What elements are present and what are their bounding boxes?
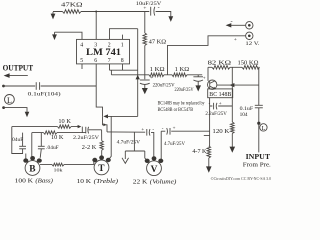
wire (top rail to capacitor)	[81, 11, 149, 13]
battery terminal + 12V (circle)	[246, 32, 253, 39]
svg-text:+: +	[203, 77, 206, 82]
svg-text:0.1uF: 0.1uF	[240, 107, 254, 112]
svg-text:1 KΩ: 1 KΩ	[150, 66, 165, 73]
wire bass left terminal	[25, 154, 27, 159]
wire to volume left terminal	[145, 151, 147, 160]
note text: BC148B may be replaced by BC548B or BC547B	[158, 101, 205, 114]
wire pin 3 to top rail	[95, 12, 97, 40]
svg-text:INPUT: INPUT	[246, 152, 271, 161]
ground arrow (below 120K)	[230, 134, 236, 153]
capacitor 0.1uF(104) output	[36, 82, 39, 90]
vertical from pin2 loop down through bus	[137, 29, 139, 117]
wire row2 left corner down to bass wiper	[31, 133, 33, 159]
svg-text:+: +	[173, 126, 176, 131]
wire feedback row	[107, 115, 138, 117]
svg-text:©CircuitsDIY.com CC BY-NC-SA 3: ©CircuitsDIY.com CC BY-NC-SA 3.0	[211, 176, 272, 181]
wire input column	[258, 67, 261, 152]
wire output row	[4, 85, 97, 87]
capacitor .04uF (bass left)	[19, 133, 26, 154]
node arrow (up arrow at bus junction)	[136, 75, 140, 80]
svg-text:2: 2	[108, 43, 111, 49]
svg-text:2.2uF/25V: 2.2uF/25V	[205, 112, 227, 117]
svg-text:3: 3	[94, 43, 97, 49]
svg-text:22 K: 22 K	[133, 178, 148, 185]
node (second output terminal)	[2, 106, 5, 109]
svg-text:10 K: 10 K	[77, 178, 92, 185]
node (pin3 tap on top rail)	[95, 11, 97, 13]
svg-text:8: 8	[121, 58, 124, 64]
node + drop to ground row	[133, 132, 135, 151]
battery terminal - (circle)	[246, 22, 253, 29]
resistor 82 KΩ	[208, 66, 242, 70]
svg-text:+: +	[234, 37, 237, 43]
resistor 10 K (row 2)	[32, 131, 86, 134]
svg-text:150 KΩ: 150 KΩ	[238, 59, 259, 66]
wire outer loop (row1 left down to bass)	[12, 127, 23, 154]
pin 1 stub	[122, 35, 124, 40]
svg-text:10k: 10k	[54, 167, 63, 172]
svg-text:+: +	[150, 76, 153, 81]
svg-text:10uF/25V: 10uF/25V	[136, 1, 162, 7]
svg-text:L: L	[7, 96, 12, 105]
svg-text:104: 104	[240, 113, 249, 118]
output arrow (left)	[4, 73, 28, 78]
svg-text:04uF: 04uF	[12, 138, 23, 143]
capacitor 10uF/25V (top)	[143, 5, 159, 15]
capacitor 2.2uF/25V (emitter branch)	[209, 102, 233, 109]
pin numbers top 4 3 2 1	[80, 43, 124, 49]
svg-text:2-2 K: 2-2 K	[82, 144, 97, 151]
wire bias bus	[111, 74, 202, 76]
resistor 4.7 K (vertical)	[207, 146, 211, 158]
svg-text:82 KΩ: 82 KΩ	[208, 59, 232, 66]
svg-text:220uF/25V: 220uF/25V	[175, 88, 194, 93]
svg-text:V: V	[151, 165, 158, 175]
resistor 120 K (vertical)	[231, 122, 235, 134]
svg-text:BC148B may be replaced by: BC148B may be replaced by	[158, 101, 205, 107]
pin 5 stub	[81, 64, 83, 69]
svg-text:.04uF: .04uF	[46, 146, 59, 151]
wire pin 2 loop	[110, 29, 138, 40]
svg-text:L: L	[262, 125, 266, 132]
svg-text:(Bass): (Bass)	[35, 178, 53, 185]
svg-text:B: B	[29, 165, 35, 175]
svg-text:4-7 K: 4-7 K	[192, 148, 207, 155]
capacitor 220uF/25V (second, below bus)	[193, 75, 205, 92]
capacitor 2.2uF/25V (row 2)	[86, 127, 102, 134]
svg-text:4: 4	[80, 43, 83, 49]
svg-text:4.7uF/25V: 4.7uF/25V	[117, 140, 141, 145]
wire ground row (between T and V)	[125, 150, 145, 152]
svg-text:47KΩ: 47KΩ	[61, 2, 83, 9]
potentiometer B (bass)	[23, 156, 42, 175]
resistor 47K (top, horizontal)	[53, 10, 81, 14]
op-amp U1 LM741 (body)	[77, 39, 130, 64]
svg-text:BC 148B: BC 148B	[209, 92, 231, 98]
resistor 1 KΩ (first)	[149, 73, 164, 77]
svg-text:+: +	[219, 102, 222, 107]
wire pin 6 down	[96, 64, 102, 116]
resistor 10 K (row 1)	[12, 125, 82, 128]
svg-text:(Volume): (Volume)	[150, 178, 177, 185]
capacitor 220uF/25V (first, below bus)	[140, 76, 153, 94]
svg-text:47 KΩ: 47 KΩ	[149, 38, 167, 45]
wire emitter/output row	[217, 84, 259, 86]
node (output terminal)	[2, 85, 5, 88]
arrow to - terminal	[226, 18, 246, 27]
wire row1 end to cap	[81, 127, 83, 133]
svg-text:12 V.: 12 V.	[245, 41, 260, 47]
wire + ground arrow (right of 10uF cap)	[156, 12, 174, 22]
capacitor .04uF (bass right)	[38, 133, 45, 158]
resistor 10k (bass-treble link)	[40, 161, 94, 166]
wire bus left end (from pin7 rail down)	[110, 70, 112, 75]
svg-text:4.7uF/25V: 4.7uF/25V	[164, 142, 186, 147]
wire pin6 descent to 4.7uF row	[103, 116, 108, 132]
svg-text:(Treble): (Treble)	[94, 178, 119, 185]
svg-text:120 K: 120 K	[212, 128, 229, 135]
wire + down arrow (second terminal)	[4, 108, 30, 118]
potentiometer T (treble)	[92, 155, 111, 174]
terminal L (input)	[260, 124, 267, 132]
wire emitter branch down	[204, 98, 210, 146]
svg-text:From Pre.: From Pre.	[243, 161, 271, 168]
capacitor 4.7uF/25V (B)	[161, 126, 209, 134]
svg-text:6: 6	[94, 58, 97, 64]
capacitor 4.7uF/25V (A)	[141, 128, 154, 136]
svg-text:5: 5	[80, 58, 83, 64]
svg-text:100 K: 100 K	[15, 178, 34, 185]
node (input junction)	[257, 122, 260, 125]
svg-text:1: 1	[121, 43, 124, 49]
svg-text:220uF/25V: 220uF/25V	[153, 83, 175, 88]
wire pin 7 / pin 8 join	[110, 64, 138, 70]
capacitor 0.1uF/104 (input)	[255, 105, 263, 108]
svg-text:10 K: 10 K	[51, 134, 64, 141]
svg-text:10 K: 10 K	[58, 118, 71, 125]
terminal L (output)	[4, 95, 14, 105]
wire 4.7uF feed row	[107, 131, 145, 133]
svg-text:T: T	[98, 164, 105, 174]
wire 12V supply to 1K junction	[168, 36, 246, 75]
svg-text:1 KΩ: 1 KΩ	[175, 66, 190, 73]
potentiometer V (volume)	[145, 156, 164, 175]
svg-text:-: -	[231, 18, 233, 25]
svg-text:7: 7	[108, 58, 111, 64]
wire capA right to volume wiper	[151, 132, 154, 158]
resistor 150 KΩ	[242, 66, 260, 70]
node arrow (left-pointing, at 120K junction)	[230, 83, 235, 87]
transistor Q1 BC148B	[208, 67, 217, 89]
ground arrow (below 4.7K)	[206, 158, 212, 173]
wire T-right terminal vertical	[109, 116, 112, 159]
resistor 2-2 K (vertical to treble wiper)	[100, 130, 103, 158]
label box BC 148B	[208, 89, 233, 98]
svg-text:0.1uF(104): 0.1uF(104)	[28, 91, 61, 98]
ground arrow (open, T/V row)	[122, 151, 129, 163]
svg-text:2.2uF/25V: 2.2uF/25V	[73, 136, 100, 141]
wire 82K/150K junction down	[231, 67, 233, 122]
resistor 1 KΩ (second)	[172, 73, 187, 77]
wire capB left to volume right terminal	[160, 131, 162, 160]
svg-text:LM 741: LM 741	[86, 47, 121, 58]
svg-text:OUTPUT: OUTPUT	[3, 63, 34, 72]
ground arrow + wire to pin 4	[52, 32, 82, 40]
node arrow (left-pointing at pin6 column)	[103, 114, 108, 118]
ground arrow (left of top 47K resistor)	[51, 12, 56, 20]
resistor 47 KΩ (vertical)	[143, 12, 147, 80]
pin numbers bottom 5 6 7 8	[80, 58, 124, 64]
svg-text:+: +	[141, 128, 144, 133]
svg-text:BC548B or BC547B: BC548B or BC547B	[158, 107, 194, 113]
